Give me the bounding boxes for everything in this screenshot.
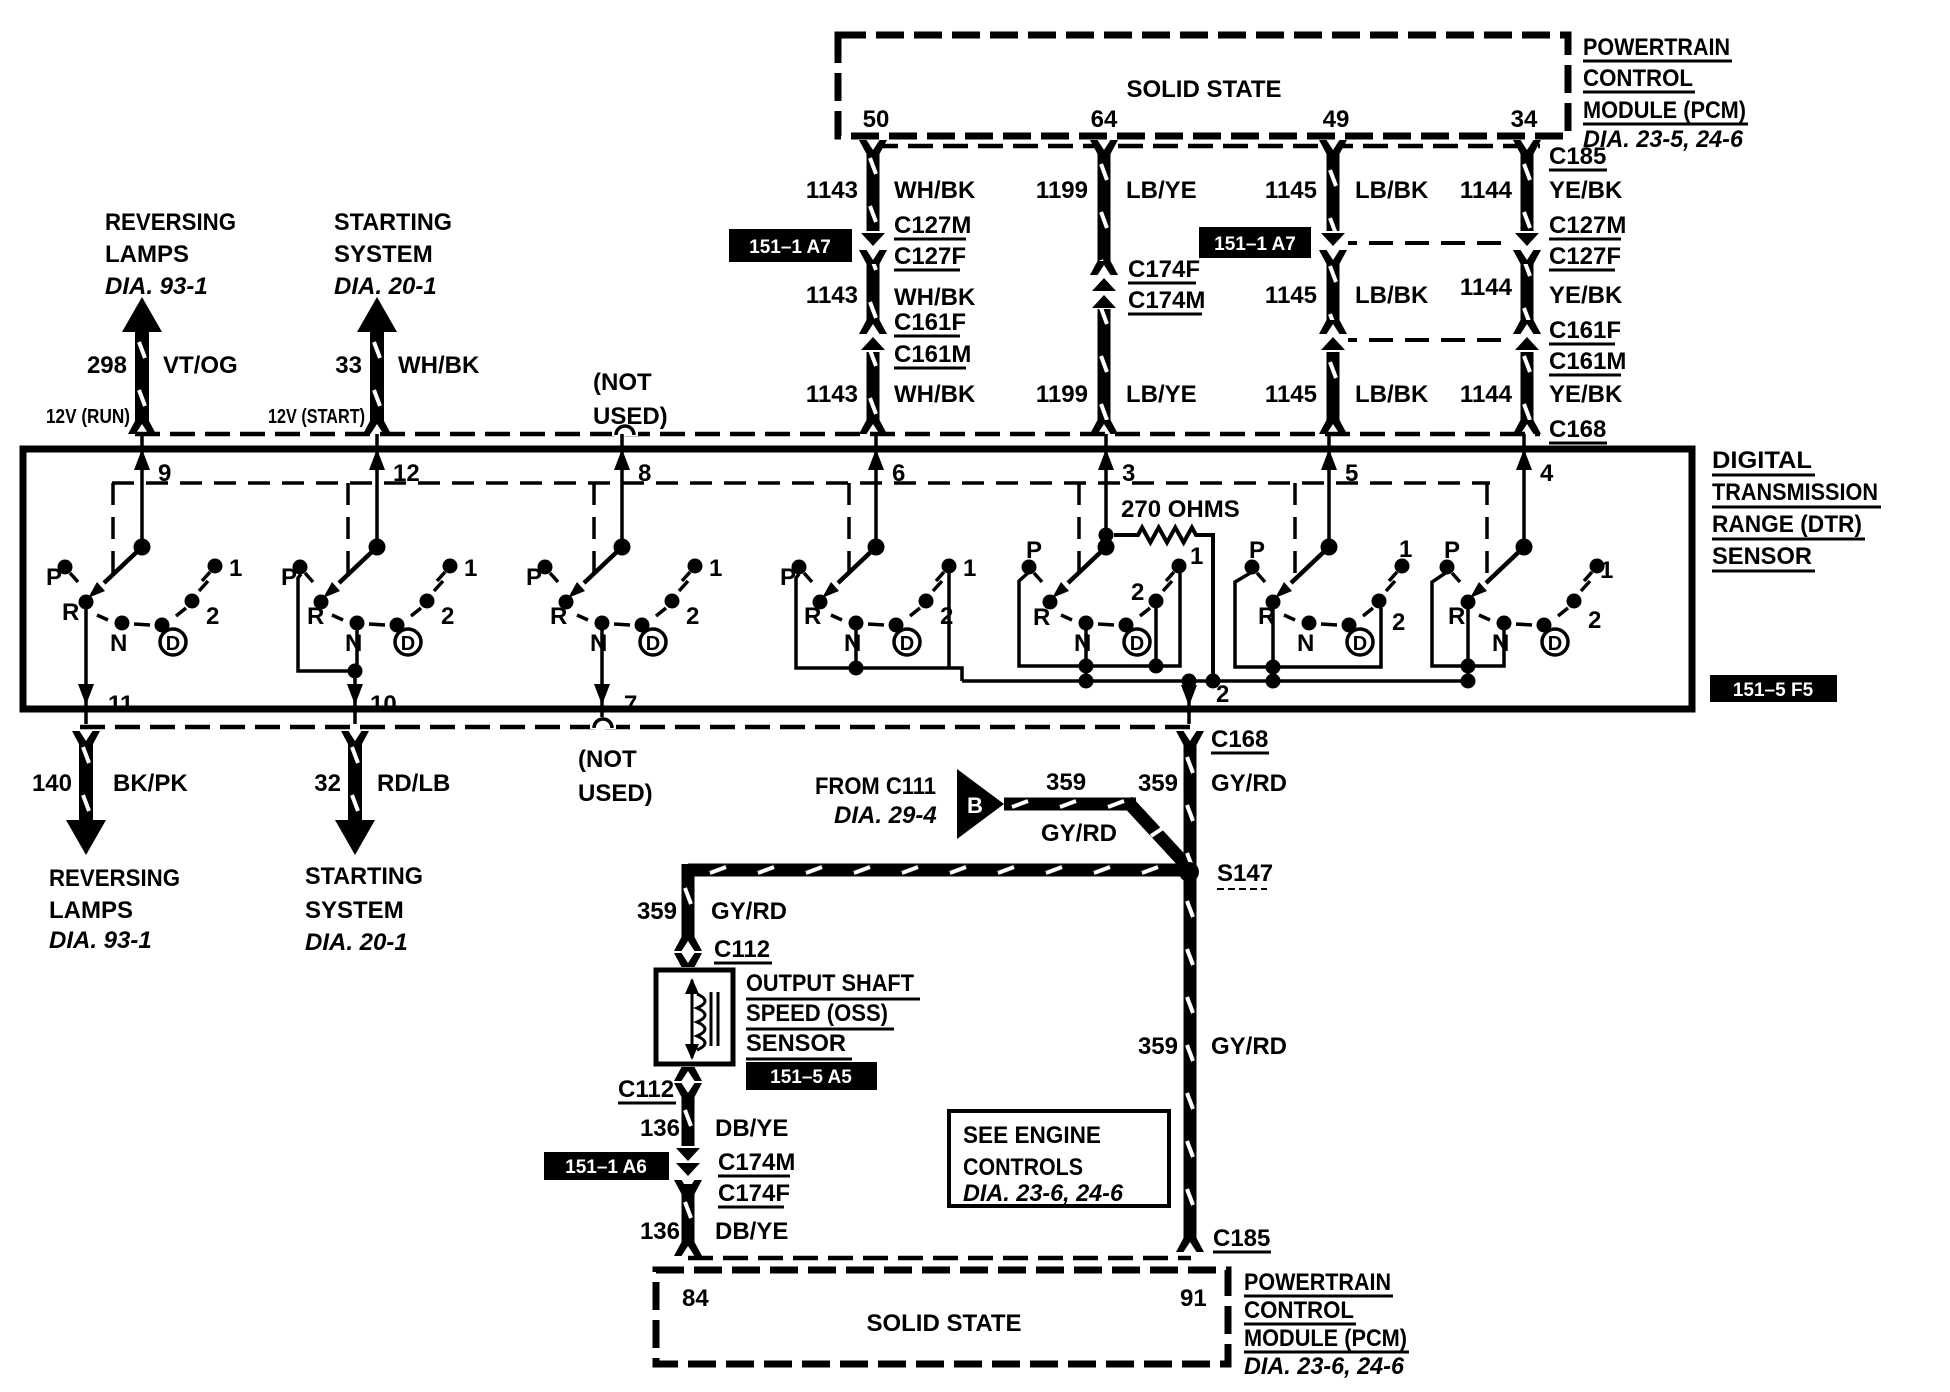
PCM top dashed box [838,35,1568,136]
svg-text:1: 1 [229,555,242,582]
svg-text:P: P [46,564,62,591]
svg-text:WH/BK: WH/BK [894,284,976,311]
wire 1145 LB/BK [1318,140,1348,434]
svg-text:S147: S147 [1217,860,1273,887]
svg-text:N: N [1074,630,1091,657]
svg-text:1143: 1143 [806,282,858,309]
svg-text:B: B [967,793,983,818]
svg-text:GY/RD: GY/RD [1211,770,1287,797]
svg-text:DB/YE: DB/YE [715,1115,788,1142]
svg-text:SENSOR: SENSOR [746,1030,846,1057]
svg-text:359: 359 [1138,1033,1178,1060]
connector C161 dashed line [1333,338,1527,342]
svg-text:1: 1 [963,555,976,582]
svg-text:GY/RD: GY/RD [1211,1033,1287,1060]
svg-text:D: D [1130,633,1144,655]
svg-text:GY/RD: GY/RD [1041,820,1117,847]
connector C112 bottom [618,1067,702,1103]
svg-text:R: R [550,603,567,630]
wire 140 BK/PK arrow [66,731,106,855]
labels 359 GY/RD (OSS branch) [637,898,787,925]
svg-text:D: D [1548,633,1562,655]
DTR switch SW1 (pin 9 / pin 11) [46,434,242,690]
pin 11 [78,684,133,724]
wire 1143 WH/BK [858,140,888,434]
svg-text:7: 7 [624,691,637,718]
DTR switch SW3 (pin 8 / pin 7) [526,434,722,690]
labels 140 BK/PK [32,770,188,797]
wire 32 RD/LB arrow [335,731,375,855]
svg-text:1: 1 [1399,536,1412,563]
svg-text:1145: 1145 [1265,177,1317,204]
labels 136 DB/YE lower [640,1218,788,1245]
connector labels C127M/C127F wire4 [1549,212,1626,270]
connector labels C127M/C127F wire1 [894,212,971,270]
svg-text:12: 12 [393,460,420,487]
svg-text:DIGITAL: DIGITAL [1712,447,1812,474]
svg-text:359: 359 [1138,770,1178,797]
svg-text:STARTING: STARTING [334,209,452,236]
svg-text:C168: C168 [1549,416,1606,443]
see engine controls box [949,1111,1169,1207]
svg-text:140: 140 [32,770,72,797]
svg-text:C161F: C161F [894,309,966,336]
svg-text:C127F: C127F [894,243,966,270]
connector C185 dashed line [873,144,1540,149]
svg-text:N: N [1492,630,1509,657]
svg-text:2: 2 [1588,607,1601,634]
svg-text:1: 1 [709,555,722,582]
svg-text:136: 136 [640,1218,680,1245]
svg-text:151–5 F5: 151–5 F5 [1733,680,1814,701]
svg-text:STARTING: STARTING [305,863,423,890]
internal ground bus [962,674,1468,689]
DTR sensor label [1712,447,1881,571]
label 12V (RUN) [46,406,130,428]
PCM bottom dashed box [656,1270,1228,1364]
connector labels C174M/C174F bottom [718,1149,795,1207]
tag 151-1 A6 [544,1152,669,1180]
svg-text:298: 298 [87,352,127,379]
svg-text:(NOT: (NOT [593,369,652,396]
svg-text:2: 2 [940,603,953,630]
svg-text:R: R [804,603,821,630]
svg-text:359: 359 [637,898,677,925]
svg-text:P: P [1249,537,1265,564]
svg-text:R: R [1033,604,1050,631]
svg-text:N: N [345,630,362,657]
svg-text:C185: C185 [1549,143,1606,170]
svg-text:1: 1 [1600,557,1613,584]
label C168 bottom [1211,726,1269,753]
svg-text:9: 9 [158,460,171,487]
svg-text:RD/LB: RD/LB [377,770,450,797]
svg-text:LB/YE: LB/YE [1126,381,1197,408]
label NOT USED top [593,369,668,430]
labels 32 RD/LB [314,770,450,797]
starting system bottom text [305,863,423,956]
svg-text:R: R [62,599,79,626]
svg-text:1143: 1143 [806,381,858,408]
svg-text:1: 1 [1190,543,1203,570]
connector C185 bottom dashed line [688,1256,1191,1261]
svg-text:MODULE (PCM): MODULE (PCM) [1583,97,1746,124]
connector C112 top [674,936,772,967]
triangle B from C111 [957,769,1004,839]
svg-text:GY/RD: GY/RD [711,898,787,925]
svg-text:CONTROL: CONTROL [1244,1297,1354,1324]
svg-text:34: 34 [1511,106,1538,133]
label 12V (START) [268,406,365,428]
svg-text:LB/BK: LB/BK [1355,177,1429,204]
svg-text:8: 8 [638,460,651,487]
resistor 270 OHMS [1114,496,1240,689]
labels wire 1143 [806,177,976,408]
svg-text:POWERTRAIN: POWERTRAIN [1244,1269,1391,1296]
svg-text:12V (START): 12V (START) [268,406,365,428]
svg-text:SENSOR: SENSOR [1712,543,1812,570]
node S147 [1179,860,1273,889]
svg-text:DIA. 23-6, 24-6: DIA. 23-6, 24-6 [963,1180,1124,1207]
labels 298 VT/OG [87,352,238,379]
svg-text:C127M: C127M [894,212,971,239]
svg-text:SPEED (OSS): SPEED (OSS) [746,1000,888,1027]
svg-text:2: 2 [441,603,454,630]
wire 33 WH/BK arrow [357,297,397,434]
svg-text:C185: C185 [1213,1225,1270,1252]
svg-text:49: 49 [1323,106,1350,133]
svg-text:1199: 1199 [1036,381,1088,408]
svg-text:WH/BK: WH/BK [894,177,976,204]
svg-text:CONTROL: CONTROL [1583,65,1693,92]
pin 7 [594,684,637,724]
connector C127 dashed line [1333,241,1527,245]
svg-text:LAMPS: LAMPS [105,241,189,268]
svg-text:LB/BK: LB/BK [1355,282,1429,309]
svg-text:D: D [900,633,914,655]
label C185 [1549,143,1607,170]
wire 359 GY/RD vertical [1176,731,1204,1252]
DTR switch SW4 (pin 6) [780,434,976,681]
svg-text:FROM C111: FROM C111 [815,773,936,800]
svg-text:REVERSING: REVERSING [105,209,236,236]
OSS sensor label [746,970,920,1059]
svg-text:DIA. 93-1: DIA. 93-1 [105,273,208,300]
svg-text:1144: 1144 [1460,274,1513,301]
svg-text:LAMPS: LAMPS [49,897,133,924]
svg-text:VT/OG: VT/OG [163,352,238,379]
labels 359 GY/RD lower [1138,1033,1287,1060]
svg-text:(NOT: (NOT [578,746,637,773]
svg-text:DIA. 29-4: DIA. 29-4 [834,802,937,829]
svg-text:P: P [1026,537,1042,564]
svg-text:2: 2 [1216,681,1229,708]
svg-text:10: 10 [370,691,397,718]
svg-text:C168: C168 [1211,726,1268,753]
svg-text:DIA. 23-6, 24-6: DIA. 23-6, 24-6 [1244,1353,1405,1380]
svg-text:SYSTEM: SYSTEM [305,897,404,924]
svg-text:D: D [646,633,660,655]
svg-text:SEE ENGINE: SEE ENGINE [963,1122,1101,1149]
labels wire 1199 [1036,177,1197,408]
PCM top module label [1583,34,1748,153]
svg-text:YE/BK: YE/BK [1549,177,1623,204]
svg-text:C174F: C174F [718,1180,790,1207]
svg-text:BK/PK: BK/PK [113,770,188,797]
PCM bottom module label [1244,1269,1409,1380]
svg-text:D: D [401,633,415,655]
svg-text:P: P [281,564,297,591]
svg-text:1: 1 [464,555,477,582]
labels wire 1144 [1460,177,1623,408]
svg-text:N: N [110,630,127,657]
svg-text:C112: C112 [618,1076,674,1103]
svg-text:MODULE (PCM): MODULE (PCM) [1244,1325,1407,1352]
svg-text:5: 5 [1345,460,1358,487]
svg-text:C174M: C174M [718,1149,795,1176]
DTR switch SW2 (pin 12 / pin 10) [281,434,477,679]
starting system top text [334,209,452,300]
connector C168 bottom dashed line [80,717,1196,729]
svg-text:2: 2 [206,603,219,630]
svg-text:151–1 A6: 151–1 A6 [565,1157,647,1178]
svg-text:TRANSMISSION: TRANSMISSION [1712,479,1878,506]
svg-text:C161F: C161F [1549,317,1621,344]
DTR switch SW5 (pin 3) [1019,434,1203,689]
labels 136 DB/YE upper [640,1115,788,1142]
connector labels C174F/C174M [1128,256,1205,314]
tag 151-5 F5 [1710,675,1837,702]
svg-text:DIA. 23-5, 24-6: DIA. 23-5, 24-6 [1583,126,1744,153]
svg-text:POWERTRAIN: POWERTRAIN [1583,34,1730,61]
svg-text:C174F: C174F [1128,256,1200,283]
svg-text:DIA. 20-1: DIA. 20-1 [334,273,437,300]
wire 136 DB/YE lower [674,1184,702,1256]
labels 33 WH/BK [335,352,480,379]
label C168 top [1549,416,1607,443]
svg-text:151–5 A5: 151–5 A5 [770,1067,852,1088]
svg-text:P: P [526,564,542,591]
svg-text:R: R [307,603,324,630]
svg-text:DIA. 20-1: DIA. 20-1 [305,929,408,956]
svg-text:1144: 1144 [1460,381,1513,408]
svg-text:D: D [1353,633,1367,655]
svg-text:P: P [1444,537,1460,564]
svg-text:12V (RUN): 12V (RUN) [46,406,130,428]
wire 1199 LB/YE [1089,140,1119,434]
tag 151-1 A7 left [729,229,852,262]
svg-text:151–1 A7: 151–1 A7 [1214,234,1296,255]
svg-text:WH/BK: WH/BK [398,352,480,379]
svg-text:2: 2 [686,603,699,630]
svg-text:1143: 1143 [806,177,858,204]
svg-text:C112: C112 [714,936,770,963]
svg-text:4: 4 [1540,460,1554,487]
pin 2 [1181,681,1229,724]
svg-text:6: 6 [892,460,905,487]
svg-text:C127M: C127M [1549,212,1626,239]
tag 151-5 A5 [746,1062,877,1090]
label FROM C111 [815,773,937,829]
svg-text:OUTPUT SHAFT: OUTPUT SHAFT [746,970,914,997]
wire 359 GY/RD from C111 [1004,798,1187,867]
svg-text:C161M: C161M [1549,348,1626,375]
svg-text:YE/BK: YE/BK [1549,282,1623,309]
svg-text:84: 84 [682,1285,709,1312]
labels 359 GY/RD (from C111) [1041,769,1117,847]
labels 359 GY/RD top [1138,770,1287,797]
OSS sensor box [656,970,733,1064]
label C185 bottom [1213,1225,1271,1252]
svg-text:LB/YE: LB/YE [1126,177,1197,204]
labels wire 1145 [1265,177,1429,408]
label NOT USED bottom [578,746,653,807]
svg-text:DIA. 93-1: DIA. 93-1 [49,927,152,954]
svg-text:1199: 1199 [1036,177,1088,204]
svg-text:32: 32 [314,770,341,797]
svg-text:DB/YE: DB/YE [715,1218,788,1245]
svg-text:WH/BK: WH/BK [894,381,976,408]
DTR sensor box [23,449,1692,709]
svg-text:C174M: C174M [1128,287,1205,314]
connector labels C161F/C161M wire4 [1549,317,1626,375]
connector labels C161F/C161M wire1 [894,309,971,368]
svg-text:3: 3 [1122,460,1135,487]
svg-text:50: 50 [863,106,890,133]
tag 151-1 A7 right [1199,227,1311,258]
svg-text:LB/BK: LB/BK [1355,381,1429,408]
svg-text:SYSTEM: SYSTEM [334,241,433,268]
svg-text:1145: 1145 [1265,282,1317,309]
pin 10 [347,671,397,724]
svg-text:C161M: C161M [894,341,971,368]
wire 359 GY/RD to OSS sensor [682,864,1181,943]
svg-text:N: N [1297,630,1314,657]
svg-text:136: 136 [640,1115,680,1142]
svg-text:CONTROLS: CONTROLS [963,1154,1083,1181]
svg-text:RANGE (DTR): RANGE (DTR) [1712,511,1862,538]
svg-text:N: N [844,630,861,657]
svg-text:359: 359 [1046,769,1086,796]
DTR switch SW6 (pin 5) [1235,434,1412,689]
switch linkage dashed lines [112,483,1490,580]
DTR switch SW7 (pin 4) [1432,434,1613,689]
svg-text:33: 33 [335,352,362,379]
wire 298 VT/OG arrow [122,297,162,434]
reversing lamps bottom text [49,865,180,954]
svg-text:2: 2 [1131,579,1144,606]
svg-text:USED): USED) [578,780,653,807]
svg-text:11: 11 [108,691,133,718]
wire 136 DB/YE upper [673,1096,703,1194]
connector C168 top dashed line [135,424,1540,436]
svg-text:SOLID STATE: SOLID STATE [866,1310,1021,1337]
svg-text:R: R [1448,603,1465,630]
svg-text:151–1 A7: 151–1 A7 [749,237,831,258]
svg-text:1145: 1145 [1265,381,1317,408]
wire 1144 YE/BK [1512,140,1542,434]
svg-text:REVERSING: REVERSING [49,865,180,892]
svg-text:C127F: C127F [1549,243,1621,270]
svg-text:D: D [166,633,180,655]
svg-text:2: 2 [1392,609,1405,636]
svg-text:P: P [780,564,796,591]
svg-text:N: N [590,630,607,657]
svg-text:64: 64 [1091,106,1118,133]
reversing lamps top text [105,209,236,300]
svg-text:1144: 1144 [1460,177,1513,204]
svg-text:91: 91 [1180,1285,1207,1312]
svg-text:SOLID STATE: SOLID STATE [1126,76,1281,103]
svg-text:YE/BK: YE/BK [1549,381,1623,408]
svg-text:270 OHMS: 270 OHMS [1121,496,1240,523]
